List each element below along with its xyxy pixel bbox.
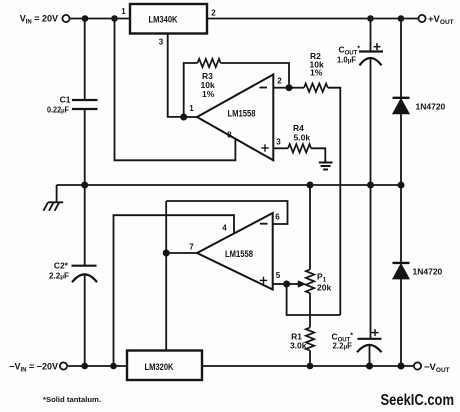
svg-text:1%: 1%: [310, 68, 323, 78]
wire C1 to mid rail: [84, 109, 86, 185]
svg-text:*Solid tantalum.: *Solid tantalum.: [43, 395, 101, 404]
wire R2 right down to lower net: [328, 88, 341, 315]
svg-text:20k: 20k: [317, 283, 331, 293]
resistor R2 10k 1%: [289, 51, 328, 92]
wire pin7 node column (to LM320K): [165, 201, 167, 351]
node junction Cout1/top: [367, 15, 374, 22]
capacitor C1 0.22uF: [47, 95, 98, 115]
wire mid rail (common): [57, 184, 401, 186]
svg-text:LM320K: LM320K: [145, 362, 174, 373]
svg-text:LM1558: LM1558: [225, 249, 253, 259]
svg-text:R4: R4: [293, 123, 304, 133]
svg-text:LM1558: LM1558: [228, 109, 256, 119]
svg-text:2.2μF: 2.2μF: [49, 271, 69, 281]
node junction diode/mid: [398, 182, 405, 189]
node junction pin4-wire/bottom: [110, 363, 117, 370]
svg-text:1: 1: [189, 104, 194, 113]
svg-text:2: 2: [211, 9, 216, 18]
svg-text:3.0k: 3.0k: [290, 341, 307, 351]
wire op-amp U2 pin4 supply: [114, 215, 235, 366]
svg-text:3: 3: [276, 138, 281, 147]
node 7 dot: [163, 250, 170, 257]
node junction R1/bottom: [307, 363, 314, 370]
wire pin6 feedback: [166, 201, 287, 224]
node 5 dot: [283, 281, 290, 288]
svg-text:0.22μF: 0.22μF: [47, 105, 69, 115]
svg-text:6: 6: [275, 213, 280, 222]
svg-text:2: 2: [277, 77, 282, 86]
wire top rail right (pin2 to +VOUT): [207, 18, 418, 20]
potentiometer P1 20k body: [306, 185, 332, 315]
svg-text:4: 4: [222, 224, 227, 233]
svg-text:3: 3: [159, 38, 164, 47]
wire R4 to ground: [311, 148, 325, 162]
wire bottom rail right: [202, 365, 414, 367]
node junction Cout2/bottom: [366, 363, 373, 370]
svg-text:5.0k: 5.0k: [294, 133, 311, 143]
resistor R4 5.0k: [273, 123, 311, 153]
svg-text:8: 8: [227, 131, 232, 140]
wire pin2 stub: [273, 87, 289, 89]
svg-text:1.0μF: 1.0μF: [337, 55, 356, 65]
svg-text:1: 1: [121, 7, 126, 16]
node junction P1/mid: [307, 182, 314, 189]
node junction C1/top: [82, 15, 89, 22]
op-amp U1 LM1558 (upper): [189, 75, 282, 161]
capacitor COUT1 1.0uF: [337, 19, 383, 186]
wire R3 to node 2: [221, 63, 290, 88]
node junction pin8-wire/top: [111, 15, 118, 22]
wire C1 column upper: [84, 19, 86, 101]
node junction diode1/top: [398, 15, 405, 22]
regulator U3 LM320K: [127, 351, 202, 381]
svg-text:7: 7: [189, 243, 194, 252]
op-amp U2 LM1558 (lower): [189, 213, 281, 290]
potentiometer P1 20k wiper arrow: [287, 280, 306, 288]
ground (chassis) at mid rail: [43, 185, 63, 211]
wire LM340K pin3 to node 1: [168, 34, 184, 117]
wire node1 to vertex: [184, 116, 197, 118]
regulator U1 LM340K: [121, 4, 216, 47]
node -VOUT terminal: [414, 362, 450, 374]
node -VIN terminal: [9, 362, 67, 374]
wire feedback to R3: [184, 63, 198, 117]
wire node7 to vertex: [166, 252, 197, 254]
node VIN terminal: [20, 14, 70, 26]
svg-text:C2*: C2*: [54, 261, 69, 271]
svg-text:C1: C1: [60, 95, 71, 105]
capacitor COUT2 2.2uF: [331, 185, 381, 366]
resistor R3 10k 1%: [198, 59, 221, 99]
svg-text:1N4720: 1N4720: [413, 267, 443, 277]
resistor R1 3.0k: [290, 315, 314, 366]
svg-text:1N4720: 1N4720: [416, 102, 446, 112]
wire top rail left: [70, 18, 130, 20]
node 1 dot: [180, 114, 187, 121]
diode D1 1N4720 (upper): [393, 19, 446, 186]
diode D2 1N4720 (lower): [393, 185, 443, 366]
svg-text:5: 5: [276, 271, 281, 280]
node junction C2/bottom: [81, 363, 88, 370]
wire bottom rail left: [67, 365, 127, 367]
wire op-amp U1 pin8 supply loop: [115, 19, 236, 161]
capacitor C2 2.2uF: [49, 185, 97, 366]
ground (earth) at R4: [319, 163, 333, 170]
node 2 dot: [286, 84, 293, 91]
wire pin5 stub: [273, 283, 287, 285]
svg-text:1%: 1%: [202, 89, 215, 99]
node junction Ccolumn/mid: [367, 182, 374, 189]
svg-text:LM340K: LM340K: [149, 15, 178, 26]
node junction diode2/bottom: [398, 363, 405, 370]
node +VOUT terminal: [418, 14, 453, 26]
node junction C-column/mid: [81, 182, 88, 189]
wire node5 down and across: [287, 284, 341, 315]
svg-text:SeekIC.com: SeekIC.com: [381, 392, 455, 409]
svg-text:2.2μF: 2.2μF: [333, 341, 353, 351]
